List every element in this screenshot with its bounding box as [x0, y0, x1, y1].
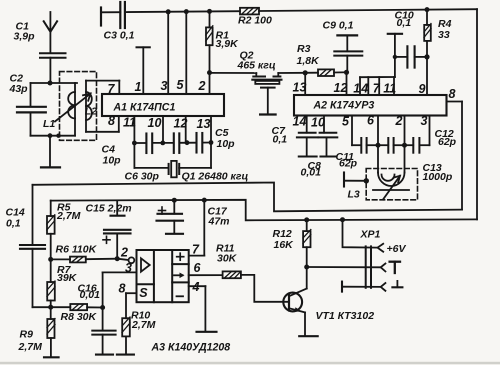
label C6 30p [125, 171, 160, 183]
svg-text:6: 6 [367, 114, 375, 128]
svg-text:1,8K: 1,8K [297, 55, 321, 67]
wire tank top rail [31, 82, 78, 84]
svg-text:5: 5 [342, 115, 350, 129]
resistor R4 [424, 10, 431, 57]
pin 8 label A2 [449, 87, 456, 101]
label R9 2,7M [18, 329, 43, 354]
svg-text:C15 2,2m: C15 2,2m [86, 203, 132, 215]
XP1 contact 2 phones [307, 264, 386, 272]
node R4 C10 pin9 junction [424, 54, 429, 59]
label R6 110K [56, 244, 98, 256]
svg-text:7: 7 [108, 82, 116, 96]
resistor R6 [51, 257, 118, 263]
pin 1 label [135, 80, 142, 94]
svg-text:47m: 47m [208, 216, 230, 228]
svg-text:2,7M: 2,7M [56, 210, 81, 222]
capacitor C8 with ground bar [319, 133, 338, 157]
svg-text:А2 К174УР3: А2 К174УР3 [313, 100, 375, 112]
svg-text:0,01: 0,01 [80, 289, 101, 301]
ground under input tank [41, 136, 60, 168]
wire pin8 A3 to R10 [126, 293, 137, 318]
pin 10 label A2 [311, 116, 325, 130]
label C8 0,01 [301, 160, 322, 179]
svg-text:10: 10 [148, 116, 162, 130]
svg-text:8: 8 [119, 282, 126, 296]
label R5 2,7M [56, 202, 81, 223]
label C13 1000p [423, 162, 453, 183]
svg-text:9: 9 [419, 82, 426, 96]
capacitor C3 [120, 2, 125, 28]
svg-text:0,01: 0,01 [301, 167, 322, 179]
capacitor C10 [395, 46, 427, 67]
label A2 K174UR3 [313, 100, 375, 112]
label R3 1,8K [297, 43, 321, 67]
pin 13 label [197, 117, 211, 131]
label +6V [387, 243, 407, 255]
pin 6 label A3 [194, 261, 202, 275]
pin 2 label A3 [120, 246, 128, 260]
svg-text:3,9K: 3,9K [216, 38, 240, 50]
node C15 R6 pin2 junction [115, 256, 120, 261]
capacitor C14 [20, 185, 51, 307]
ground symbol at XP1 [392, 281, 402, 287]
svg-text:10p: 10p [103, 155, 122, 167]
wire pin13 A1 [210, 116, 212, 168]
resistor R7 [47, 259, 55, 307]
wire bus1 pin8 return [33, 183, 463, 212]
label XP1 [360, 229, 381, 241]
svg-text:10p: 10p [217, 138, 236, 150]
label R1 3,9K [216, 30, 240, 51]
pin 2 label A2 [395, 114, 403, 128]
wire bus2 supply [51, 200, 477, 221]
node bus R4 top [425, 7, 430, 12]
svg-text:C3 0,1: C3 0,1 [104, 30, 135, 42]
pin 3 label [161, 79, 168, 93]
resistor R12 [303, 220, 311, 267]
node bus pin3 [166, 9, 171, 14]
svg-text:4: 4 [192, 280, 200, 294]
svg-text:5: 5 [177, 78, 185, 92]
label C15 2,2m [86, 203, 132, 215]
node pin6 cap row [376, 143, 381, 148]
stub pin1 A1 with T bar [137, 47, 150, 94]
svg-text:R6 110K: R6 110K [56, 244, 98, 256]
svg-text:А3 К140УД1208: А3 К140УД1208 [151, 342, 231, 354]
wire pin9 A2 [426, 57, 428, 95]
wire right supply rail [476, 9, 478, 219]
label C2 43p [9, 73, 29, 96]
op-amp A3 K140UD1208 box [137, 250, 189, 302]
op-amp minus cell [177, 295, 184, 297]
svg-text:12: 12 [174, 117, 188, 131]
wire pin4 A3 with ground bar [189, 286, 217, 332]
svg-text:62p: 62p [339, 158, 358, 170]
svg-text:2: 2 [198, 79, 206, 93]
op-amp S label [139, 286, 148, 300]
phone symbol [390, 262, 400, 273]
pin 9 label A2 [419, 82, 426, 96]
svg-text:11: 11 [123, 116, 136, 130]
pin 12 label [174, 117, 188, 131]
label C1 3,9p [14, 21, 36, 43]
svg-text:43p: 43p [9, 83, 29, 95]
resistor R10 with ground bar [117, 317, 134, 355]
wire R11 to VT1 base [241, 275, 289, 302]
wire pin3 A3 [103, 272, 137, 307]
core line L3 [373, 189, 409, 191]
antenna WA1 [44, 12, 57, 53]
tuning arrow across L1 L2 [55, 94, 91, 122]
capacitor C11 [361, 138, 378, 153]
terminal bar top-left [100, 8, 102, 26]
scanner edge artifact bottom [0, 362, 500, 364]
svg-text:2,7M: 2,7M [18, 341, 43, 353]
svg-text:XP1: XP1 [360, 229, 381, 241]
label R2 100 [238, 15, 272, 27]
label C12 62p [435, 128, 457, 148]
capacitor C1 [40, 53, 66, 83]
node pin2 cap row [402, 143, 407, 148]
capacitor C12 [405, 138, 430, 153]
capacitor C2 [17, 83, 46, 136]
label C3 0,1 [104, 30, 135, 42]
resistor R8 [51, 304, 103, 310]
svg-text:14: 14 [293, 115, 307, 129]
stub C10 ground bar [388, 34, 402, 77]
wire pin14 A2 [306, 116, 308, 133]
svg-text:R9: R9 [20, 329, 34, 341]
label C11 62p [336, 151, 358, 170]
pin 2 label [198, 79, 206, 93]
svg-text:6: 6 [194, 261, 202, 275]
wire top supply bus [125, 10, 240, 13]
node L3 tap [364, 178, 369, 183]
label C17 47m [208, 206, 230, 228]
inductor L1 [68, 83, 75, 136]
plus sign C17 [159, 207, 166, 214]
svg-text:0,1: 0,1 [273, 134, 288, 146]
node bus2 XP1 junction [340, 217, 345, 222]
capacitor C15 electrolytic [104, 200, 131, 258]
capacitor C17 electrolytic with ground bar [157, 200, 184, 234]
wire pin10 A2 [323, 116, 325, 133]
transistor VT1 KT3102 [283, 267, 317, 336]
label C7 0,1 [272, 125, 288, 146]
wire oscillator cap row [134, 142, 211, 145]
pin 6 label A2 [367, 114, 375, 128]
wire Q2 input lead [210, 73, 257, 77]
wire pin7 A1 to L2 top [86, 81, 119, 94]
node R1 bottom junction [207, 70, 212, 75]
pin 8 label [108, 114, 115, 128]
wire pin8 A2 [447, 102, 463, 210]
pin 10 label [148, 116, 162, 130]
svg-text:1: 1 [353, 82, 360, 96]
svg-text:8: 8 [449, 87, 456, 101]
pin 7 label [108, 82, 116, 96]
crystal Q1 [169, 161, 180, 177]
svg-text:3: 3 [161, 79, 168, 93]
wire pin8 A1 to L2 bottom [86, 116, 119, 132]
svg-text:7: 7 [192, 243, 200, 257]
node bus2 pin7 junction [202, 198, 207, 203]
label C10 0,1 [395, 10, 414, 30]
node R7 R8 C14 junction [48, 305, 53, 310]
label R11 30K [216, 243, 238, 265]
svg-text:2: 2 [395, 114, 403, 128]
resistor R2 [240, 8, 259, 15]
svg-text:C9 0,1: C9 0,1 [323, 20, 354, 32]
IC A1 K174PS1 box [102, 94, 224, 116]
pin 5 label [177, 78, 185, 92]
capacitor C4 [146, 134, 152, 154]
node C10 left junction [393, 55, 397, 59]
svg-text:L3: L3 [348, 189, 360, 201]
wire pin12 A2 [346, 72, 348, 95]
label L1 [43, 118, 55, 130]
node R3 pin12 junction [344, 70, 349, 75]
node bus2 C17 junction [172, 198, 177, 203]
wire pin6 A2 [377, 116, 379, 173]
wire pin12 A1 [185, 116, 187, 143]
svg-text:2: 2 [120, 246, 128, 260]
svg-text:30K: 30K [217, 253, 238, 265]
pin 4 label A3 [192, 280, 200, 294]
svg-text:8: 8 [108, 114, 115, 128]
wire pin3 A2 [429, 116, 431, 146]
wire pin2 A3 with inversion bubble [117, 257, 134, 263]
wire pins 1 4 7 11 cluster bar [360, 77, 395, 95]
wire Q2 output lead [278, 72, 305, 74]
op-amp output arrow cell [174, 273, 185, 279]
label A3 K140UD1208 [151, 342, 231, 354]
connector XP1 body [366, 246, 371, 287]
label C5 10p [215, 127, 235, 150]
label R10 2,7M [131, 310, 156, 332]
resistor R3 [305, 69, 346, 76]
label A1 K174PS1 [113, 102, 176, 114]
wire pin5 A2 to C11 [352, 116, 361, 146]
wire pin6 A3 output [189, 274, 223, 276]
wire pin10 A1 [162, 116, 164, 143]
capacitor C9 with ground bar [334, 35, 362, 72]
node R5 R6 R7 junction [48, 257, 53, 262]
label R8 30K [61, 311, 98, 323]
svg-text:13: 13 [293, 81, 307, 95]
wire top supply bus right part [259, 9, 477, 11]
plus sign C15 [103, 236, 110, 243]
wire pin2 A1 [209, 73, 211, 94]
svg-text:4: 4 [360, 82, 368, 96]
capacitor C5 [197, 133, 203, 153]
label C9 0,1 [323, 20, 354, 32]
resistor R1 [206, 11, 213, 72]
svg-text:C6 30p: C6 30p [125, 171, 160, 183]
svg-text:62p: 62p [438, 136, 457, 148]
svg-text:+6V: +6V [387, 243, 407, 255]
screen dashed box L3 [366, 169, 417, 200]
svg-text:10: 10 [311, 116, 325, 130]
svg-text:0,1: 0,1 [6, 218, 21, 230]
svg-text:R2 100: R2 100 [238, 15, 272, 27]
pin labels 1 4 7 11 A2 [353, 82, 396, 96]
pin 13 wire A2 [304, 73, 306, 95]
node tank bottom junctions [48, 133, 61, 138]
svg-text:VT1 КТ3102: VT1 КТ3102 [316, 310, 375, 322]
svg-text:L2: L2 [85, 106, 97, 118]
svg-text:7: 7 [373, 82, 381, 96]
pin 7 label A3 [192, 243, 200, 257]
inductor L3 loop [378, 173, 405, 187]
wire tank bottom rail [31, 135, 76, 137]
svg-text:465 кгц: 465 кгц [237, 60, 276, 72]
svg-text:R8 30K: R8 30K [61, 311, 98, 323]
svg-text:2,7M: 2,7M [131, 319, 156, 331]
wire pin3 A1 [167, 12, 169, 94]
svg-text:R3: R3 [297, 43, 311, 55]
wire top supply bus left segment [101, 11, 120, 13]
capacitor C7 with ground bar [297, 133, 318, 157]
label R4 33 [438, 18, 452, 41]
svg-text:1000p: 1000p [423, 171, 453, 183]
svg-text:11: 11 [383, 82, 396, 96]
pin 3 label A3 [125, 261, 132, 275]
resistor R9 [44, 307, 59, 357]
tuning arrow L3 [383, 176, 400, 200]
op-amp plus cell [177, 253, 184, 260]
svg-text:3: 3 [125, 261, 132, 275]
wire pin7 A3 [189, 200, 205, 256]
svg-text:L1: L1 [43, 118, 55, 130]
svg-text:12: 12 [334, 81, 348, 95]
svg-text:3: 3 [421, 114, 428, 128]
svg-text:39K: 39K [57, 272, 78, 284]
XP1 contact 1 +6V [343, 220, 384, 252]
svg-text:0,1: 0,1 [397, 17, 412, 29]
pin 3 label A2 [421, 114, 428, 128]
label C14 0,1 [6, 207, 25, 230]
node cap row junctions [132, 140, 213, 145]
label R7 39K [57, 264, 78, 284]
wire pin5 A1 [185, 12, 187, 94]
label Q2 465 kHz [237, 50, 276, 72]
label Q1 26480 kHz [182, 171, 249, 183]
wire pin2 A2 [404, 116, 406, 173]
resistor R11 [223, 271, 241, 278]
XP1 contact 3 common [342, 282, 385, 292]
pin 14 label A2 [293, 115, 307, 129]
node Q2 output junction [303, 70, 308, 75]
node collector junction [304, 265, 309, 270]
pin 8 label A3 [119, 282, 126, 296]
node R8 C16 pin3 junction [100, 305, 105, 310]
tap terminal L3 [344, 173, 366, 187]
label VT1 KT3102 [316, 310, 375, 322]
wire pin11 A1 [133, 116, 135, 168]
pin 11 label [123, 116, 136, 130]
node bus2 R12 junction [304, 217, 309, 222]
svg-text:13: 13 [197, 117, 211, 131]
wire crystal loop [134, 167, 211, 169]
inductor L2 [86, 81, 92, 132]
node antenna junction [48, 81, 53, 86]
label R12 16K [273, 228, 295, 251]
IC A2 K174UR3 box [294, 95, 447, 116]
label L2 [85, 106, 97, 118]
screen dashed box around L1 L2 [60, 72, 97, 141]
capacitor C6 [174, 133, 180, 153]
label L3 [348, 189, 360, 201]
pin 12 label A2 [334, 81, 348, 95]
svg-text:S: S [139, 286, 148, 300]
pin 5 label A2 [342, 115, 350, 129]
svg-text:А1 К174ПС1: А1 К174ПС1 [113, 102, 176, 114]
svg-text:1: 1 [135, 80, 142, 94]
capacitor between pin6 and pin2 [378, 138, 405, 153]
node bus pin5 [184, 9, 189, 14]
label C4 10p [102, 144, 122, 167]
svg-text:33: 33 [438, 29, 450, 41]
pin 13 label A2 [293, 81, 307, 95]
resistor R5 [47, 201, 55, 260]
piezo filter Q2 [252, 73, 281, 115]
op-amp triangle symbol [141, 258, 150, 271]
label C16 0,01 [78, 283, 101, 302]
svg-text:3,9p: 3,9p [14, 31, 36, 43]
svg-text:Q1 26480 кгц: Q1 26480 кгц [182, 171, 249, 183]
node bus R1 [207, 9, 212, 14]
capacitor C16 with ground bar [92, 308, 115, 355]
svg-text:16K: 16K [274, 239, 295, 251]
